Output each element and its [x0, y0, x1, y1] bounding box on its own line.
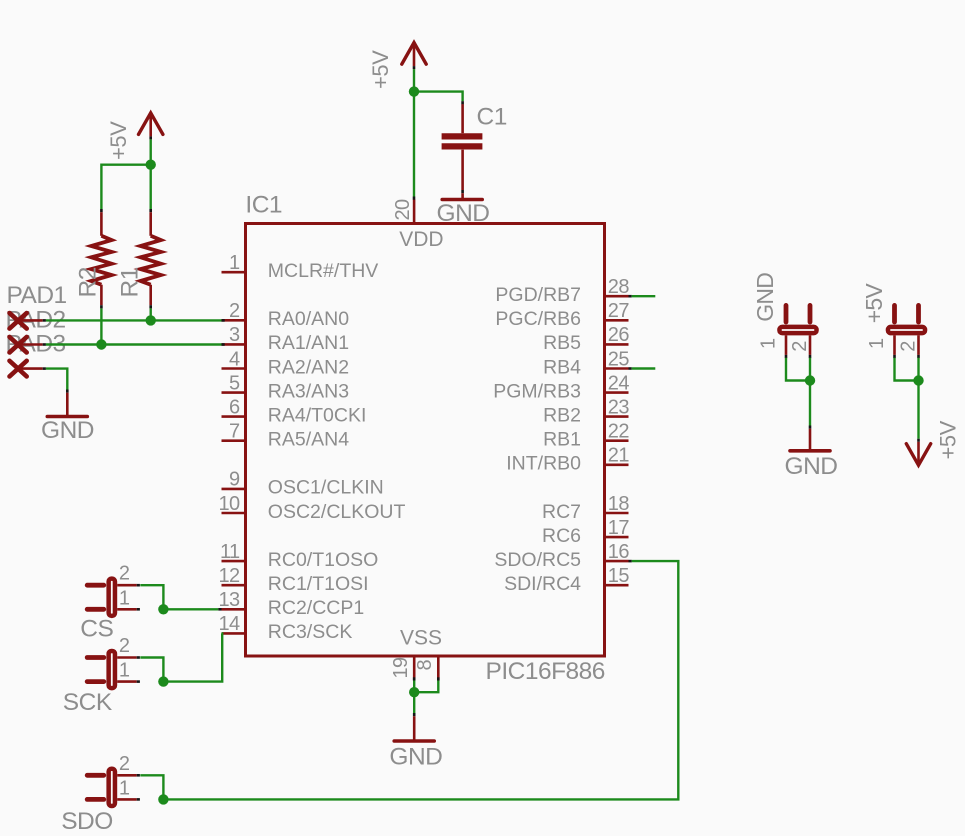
IC1 pin 13 (RC2/CCP1) — [218, 589, 364, 619]
pin tip IC pin 25 — [629, 367, 632, 370]
+5V supply symbol (down arrow) — [906, 444, 930, 466]
svg-text:7: 7 — [229, 421, 240, 443]
svg-text:1: 1 — [119, 660, 130, 682]
svg-text:PGC/RB6: PGC/RB6 — [495, 308, 581, 330]
svg-text:PGD/RB7: PGD/RB7 — [495, 284, 581, 306]
wire pin 19 to junction — [413, 681, 415, 693]
svg-text:+5V: +5V — [106, 121, 131, 160]
svg-text:GND: GND — [752, 273, 778, 322]
svg-text:RC7: RC7 — [542, 501, 581, 523]
svg-text:RA2/AN2: RA2/AN2 — [268, 356, 349, 378]
PAD1 pin lead — [18, 319, 43, 322]
PAD3 pin lead — [18, 367, 43, 370]
svg-text:CS: CS — [80, 616, 113, 643]
svg-text:10: 10 — [218, 493, 240, 515]
svg-text:RB4: RB4 — [543, 356, 581, 378]
junction VSS net — [409, 687, 419, 697]
IC1 pin 27 (PGC/RB6) — [495, 300, 629, 330]
svg-text:+5V: +5V — [861, 283, 887, 324]
wire R2 to RA1 net — [100, 308, 102, 344]
junction SCK — [158, 676, 168, 686]
IC1 pin 7 (RA5/AN4) — [222, 421, 350, 451]
svg-text:8: 8 — [414, 660, 436, 671]
svg-text:RC1/T1OSI: RC1/T1OSI — [268, 573, 369, 595]
svg-text:25: 25 — [608, 348, 630, 370]
svg-text:GND: GND — [785, 453, 838, 480]
wire stub pin 28 (PGD/RB7) — [632, 295, 656, 297]
pin tip VDD pin 20 — [413, 197, 416, 200]
IC1 pin 1 (MCLR#/THV) — [222, 252, 379, 282]
wire net RA0 (PAD1 to pin 2) — [46, 319, 222, 321]
IC1 pin 26 (RB5) — [543, 324, 629, 354]
pin tip IC pin 16 — [629, 560, 632, 563]
svg-text:RC0/T1OSO: RC0/T1OSO — [268, 549, 379, 571]
pin tip PAD1 — [43, 319, 46, 322]
+5V supply symbol (top) — [402, 43, 426, 65]
svg-text:14: 14 — [218, 613, 240, 635]
svg-text:27: 27 — [608, 300, 630, 322]
wire CS pin2 to junction — [140, 585, 163, 609]
svg-text:28: 28 — [608, 276, 630, 298]
svg-text:RA3/AN3: RA3/AN3 — [268, 380, 349, 402]
wire junction to R1 top — [149, 165, 151, 209]
svg-text:6: 6 — [229, 396, 240, 418]
wire net RA1 (PAD2 to pin 3) — [46, 343, 222, 345]
pin tip C1 top — [461, 101, 464, 104]
wire junction to ground (right) — [809, 381, 811, 426]
svg-text:2: 2 — [119, 563, 130, 585]
pin tip PAD2 — [43, 343, 46, 346]
pin tip ground (pads) — [66, 390, 69, 393]
svg-text:2: 2 — [229, 300, 240, 322]
junction R1 bottom / RA0 — [146, 315, 156, 325]
svg-text:RC6: RC6 — [542, 525, 581, 547]
pad PAD3 (X symbol) — [10, 361, 27, 377]
svg-text:16: 16 — [608, 541, 630, 563]
svg-text:PGM/RB3: PGM/RB3 — [493, 380, 581, 402]
IC1 pin 22 (RB1) — [543, 421, 629, 451]
svg-text:4: 4 — [229, 348, 240, 370]
svg-text:21: 21 — [608, 445, 630, 467]
svg-text:12: 12 — [218, 565, 240, 587]
svg-text:VSS: VSS — [400, 626, 442, 649]
wire J-5V pin1 to junction — [895, 358, 919, 381]
connector J-GND (2-pin header) — [779, 305, 816, 358]
PAD2 pin lead — [18, 343, 43, 346]
IC1 pin 16 (SDO/RC5) — [494, 541, 629, 571]
pin tip R1 top — [149, 209, 152, 212]
wire junction to C1 — [414, 92, 463, 102]
pad PAD2 (X symbol) — [10, 337, 27, 353]
svg-text:20: 20 — [392, 199, 414, 221]
IC1 pin 12 (RC1/T1OSI) — [218, 565, 368, 595]
junction J-5V — [913, 375, 923, 385]
junction CS — [158, 604, 168, 614]
pin tip R2 bottom — [100, 305, 103, 308]
ground symbol (right) — [790, 429, 830, 451]
svg-text:RB5: RB5 — [543, 332, 581, 354]
wire junction to +5V arrow — [917, 381, 919, 439]
svg-text:RA0/AN0: RA0/AN0 — [268, 308, 349, 330]
pin tip R2 top — [100, 209, 103, 212]
svg-text:1: 1 — [229, 252, 240, 274]
IC1 pin 19 (VSS) — [390, 626, 442, 680]
IC1 pin 14 (RC3/SCK) — [218, 613, 352, 643]
ground symbol (pads) — [47, 393, 87, 417]
wire +5V arrow to junction — [149, 139, 151, 164]
svg-text:RB1: RB1 — [543, 429, 581, 451]
wire J-GND pin1 to junction — [786, 358, 810, 381]
svg-text:11: 11 — [220, 541, 240, 563]
pin tip IC pin 3 — [222, 343, 225, 346]
svg-text:GND: GND — [41, 417, 94, 444]
svg-text:OSC2/CLKOUT: OSC2/CLKOUT — [268, 501, 406, 523]
IC1 pin 21 (INT/RB0) — [506, 445, 629, 475]
wire SDO pin2 to junction — [140, 775, 163, 799]
svg-text:15: 15 — [608, 565, 630, 587]
connector SCK (2-pin header) — [87, 651, 140, 688]
IC1 pin 3 (RA1/AN1) — [222, 324, 350, 354]
svg-text:1: 1 — [866, 338, 888, 349]
IC1 pin 15 (SDI/RC4) — [504, 565, 629, 595]
svg-text:1: 1 — [758, 338, 780, 349]
wire PAD3 to ground — [46, 369, 67, 390]
svg-text:2: 2 — [789, 341, 811, 352]
svg-text:OSC1/CLKIN: OSC1/CLKIN — [268, 477, 384, 499]
svg-text:+5V: +5V — [936, 420, 961, 459]
svg-text:RA1/AN1: RA1/AN1 — [268, 332, 349, 354]
wire pin 8 to junction — [414, 681, 438, 693]
wire J-5V pin2 to junction — [917, 358, 919, 381]
IC1 pin 10 (OSC2/CLKOUT) — [218, 493, 405, 523]
junction VDD net — [409, 86, 419, 96]
connector J-5V (2-pin header) — [888, 305, 925, 358]
svg-text:RC3/SCK: RC3/SCK — [268, 621, 353, 643]
pin tip IC pin 2 — [222, 319, 225, 322]
IC1 pin 4 (RA2/AN2) — [222, 348, 350, 378]
svg-text:1: 1 — [119, 587, 130, 609]
IC1 pin 9 (OSC1/CLKIN) — [222, 469, 384, 499]
IC1 pin 8 (VSS) — [414, 656, 438, 681]
pin tip IC pin 28 — [629, 295, 632, 298]
wire SCK pin2 to junction — [140, 658, 163, 682]
wire junction to ground (VSS) — [413, 692, 415, 713]
svg-text:RB2: RB2 — [543, 404, 581, 426]
pin tip ground (right) — [809, 426, 812, 429]
IC1 pin 6 (RA4/T0CKI) — [222, 396, 367, 426]
pin tip VSS pin 8 — [437, 677, 440, 680]
wire R1 to RA0 net — [149, 308, 151, 320]
svg-text:PIC16F886: PIC16F886 — [486, 658, 605, 685]
svg-text:19: 19 — [390, 657, 412, 679]
svg-text:26: 26 — [608, 324, 630, 346]
IC1 pin 25 (RB4) — [543, 348, 629, 378]
ground symbol (C1) — [442, 193, 482, 199]
+5V supply symbol (left) — [139, 113, 163, 134]
svg-text:SDO: SDO — [61, 808, 113, 835]
wire stub pin 25 (RB4) — [632, 367, 656, 369]
svg-text:22: 22 — [608, 421, 630, 443]
pin tip IC pin 13 — [218, 608, 221, 611]
wire junction to VDD pin 20 — [413, 92, 415, 197]
svg-text:GND: GND — [437, 200, 490, 227]
svg-text:SCK: SCK — [63, 689, 113, 716]
svg-text:1: 1 — [119, 777, 130, 799]
svg-text:23: 23 — [608, 396, 630, 418]
svg-text:+5V: +5V — [368, 50, 393, 89]
svg-text:2: 2 — [119, 635, 130, 657]
wire SCK to IC pin 14 — [163, 633, 222, 681]
svg-text:INT/RB0: INT/RB0 — [506, 453, 581, 475]
junction SDO — [158, 794, 168, 804]
resistor R2 — [91, 212, 111, 305]
junction J-GND — [805, 375, 815, 385]
svg-text:RA5/AN4: RA5/AN4 — [268, 429, 349, 451]
svg-text:2: 2 — [898, 341, 920, 352]
IC1 pin 5 (RA3/AN3) — [222, 372, 350, 402]
wire junction to R2 top — [101, 165, 150, 209]
connector SDO (2-pin header) — [87, 769, 140, 806]
resistor R1 — [141, 212, 161, 305]
svg-text:2: 2 — [119, 753, 130, 775]
IC1 PIC16F886 body — [246, 224, 605, 657]
connector CS (2-pin header) — [87, 579, 140, 616]
IC1 pin 28 (PGD/RB7) — [495, 276, 629, 306]
IC1 pin 11 (RC0/T1OSO) — [220, 541, 378, 571]
wire CS to IC pin 13 — [163, 608, 218, 610]
pin tip R1 bottom — [149, 305, 152, 308]
ground symbol (VSS) — [394, 716, 434, 741]
pin tip PAD3 — [43, 367, 46, 370]
svg-text:IC1: IC1 — [245, 192, 282, 219]
svg-text:5: 5 — [229, 372, 240, 394]
svg-text:MCLR#/THV: MCLR#/THV — [268, 260, 379, 282]
pin tip ground (VSS) — [413, 713, 416, 716]
junction R2 bottom / RA1 — [96, 339, 106, 349]
pin tip C1 bottom — [461, 190, 464, 193]
svg-text:9: 9 — [229, 469, 240, 491]
svg-text:SDO/RC5: SDO/RC5 — [494, 549, 581, 571]
svg-text:SDI/RC4: SDI/RC4 — [504, 573, 581, 595]
IC1 pin 17 (RC6) — [542, 517, 629, 547]
wire J-GND pin2 to junction — [809, 358, 811, 381]
IC1 pin 24 (PGM/RB3) — [493, 372, 629, 402]
pad PAD1 (X symbol) — [10, 313, 27, 329]
svg-text:RA4/T0CKI: RA4/T0CKI — [268, 404, 367, 426]
svg-text:C1: C1 — [477, 104, 507, 131]
svg-text:R2: R2 — [75, 267, 102, 297]
svg-text:18: 18 — [608, 493, 630, 515]
svg-text:17: 17 — [608, 517, 630, 539]
svg-text:13: 13 — [218, 589, 240, 611]
svg-text:RC2/CCP1: RC2/CCP1 — [268, 597, 364, 619]
IC1 pin 23 (RB2) — [543, 396, 629, 426]
svg-text:GND: GND — [389, 744, 442, 771]
IC1 pin 18 (RC7) — [542, 493, 629, 523]
capacitor C1 — [442, 104, 483, 190]
wire +5V to VDD junction — [413, 69, 415, 92]
junction R1 top — [146, 160, 156, 170]
IC1 pin 2 (RA0/AN0) — [222, 300, 350, 330]
IC1 pin 20 (VDD) — [392, 199, 444, 251]
svg-text:PAD1: PAD1 — [7, 282, 67, 309]
svg-text:3: 3 — [229, 324, 240, 346]
svg-text:R1: R1 — [117, 267, 144, 297]
wire SDO to IC pin 16 — [163, 561, 678, 799]
svg-text:VDD: VDD — [399, 228, 443, 251]
svg-text:24: 24 — [608, 372, 630, 394]
pin tip VSS pin 19 — [413, 677, 416, 680]
